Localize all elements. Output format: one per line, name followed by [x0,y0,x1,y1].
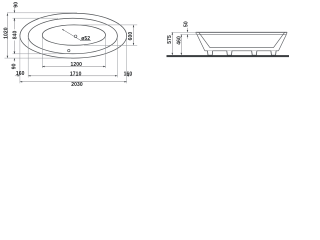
dim line 1200 [42,66,105,68]
svg-text:1710: 1710 [70,71,82,77]
basin-top extension [80,24,137,26]
drain leader line [62,29,81,40]
dim 160 left tails [15,75,20,77]
outer-bottom extension [5,57,72,59]
dim line 1710 [28,75,117,77]
svg-text:600: 600 [128,32,134,41]
drain hole circle [74,35,77,38]
foot 4 [271,51,276,55]
dim line 600 [133,25,135,45]
dim line 575 [171,32,173,55]
section: right inner wall [273,33,284,48]
drain leader arrow [62,29,64,31]
section extension: rim underside level [180,33,197,35]
section: left inner wall [199,33,210,48]
dim line 460 [180,34,182,55]
dim line 2030 [20,81,127,83]
inner-rim-bottom extension [13,53,67,55]
svg-text:50: 50 [183,21,189,27]
foot 2 [227,51,232,55]
section: right rim lip [285,32,288,34]
vertical extension line [19,37,21,83]
bathtub plan view: outer rim ellipse [20,13,127,58]
svg-text:90: 90 [12,63,18,69]
dim line 1020 [6,13,8,58]
section: left rim lip [195,32,198,34]
basin-bottom extension [84,44,137,46]
dim 50 (outside arrows) [187,28,189,33]
section: rim top line [196,31,287,33]
bathtub plan view: basin bottom ellipse [42,25,105,45]
floor line [167,55,290,57]
svg-text:1200: 1200 [71,62,83,68]
waste hole circle on basin floor [68,49,70,51]
outer-top extension [7,12,77,14]
bathtub plan view: middle (inner rim) ellipse [28,18,117,54]
svg-text:2030: 2030 [71,82,83,88]
section: interior bottom [210,47,273,49]
section extension: rim top level [171,31,196,33]
svg-text:160: 160 [124,71,133,77]
inner-rim-top extension [13,17,59,19]
foot 3 [252,51,257,55]
svg-text:460: 460 [176,36,182,45]
vertical extension line [116,37,118,77]
dim 160 right tails [127,75,132,77]
section: rim underside line [196,34,286,36]
dim 90 bottom (outside arrows) [13,58,15,62]
svg-text:ø52: ø52 [81,36,90,42]
vertical extension line [105,37,107,69]
svg-text:160: 160 [16,71,25,77]
svg-text:90: 90 [13,2,19,8]
dim line 840 (broken behind label) [13,18,15,29]
svg-text:575: 575 [167,35,173,44]
section: right outer wall [279,35,287,51]
foot 1 [208,51,213,55]
vertical extension line [41,37,43,69]
section: base bottom [205,50,279,52]
dim 90 top (outside arrows) [13,8,15,13]
vertical extension line [27,37,29,77]
svg-text:840: 840 [13,30,19,39]
vertical extension line [126,37,128,83]
section: left outer wall [197,35,205,51]
svg-text:1020: 1020 [4,27,10,39]
